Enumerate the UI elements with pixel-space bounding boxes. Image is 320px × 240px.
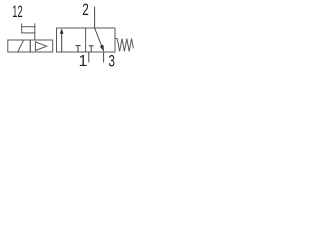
wire: pilot connector down to pilot stage <box>34 33 36 40</box>
pilot port symbol Z (rect with side ticks) <box>21 23 35 33</box>
pilot amplifier box with triangle <box>30 40 52 52</box>
right square: diagonal flow arrow 2->3 <box>95 28 104 52</box>
valve body: two position squares <box>57 28 116 52</box>
background <box>0 0 145 75</box>
svg-text:12: 12 <box>12 3 22 21</box>
left square: blocked port T <box>75 46 80 52</box>
svg-text:1: 1 <box>79 53 88 70</box>
left square: flow arrow 1->2 (vertical, head up) <box>60 28 64 52</box>
svg-text:2: 2 <box>82 1 89 19</box>
wire: port 1 stub <box>88 52 90 62</box>
right square: blocked port T (port 1) <box>89 46 94 52</box>
wire: port 3 stub <box>103 52 105 62</box>
wire: port 2 line (top) <box>94 7 96 29</box>
solenoid coil box with diagonal <box>8 40 31 52</box>
svg-text:3: 3 <box>109 52 115 70</box>
spring return (right side) <box>115 39 133 52</box>
